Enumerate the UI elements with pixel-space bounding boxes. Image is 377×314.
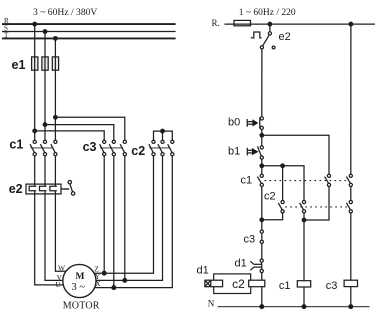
svg-text:c2: c2 [131,144,145,158]
svg-text:c3: c3 [244,234,256,246]
c1 aux contact right rung [346,174,352,186]
svg-text:d1: d1 [197,265,209,277]
wire c3 pole3 to Y node [124,156,126,281]
c2 star bus [154,131,173,140]
bus line T [2,37,176,39]
wire feeder A to c3 contact 3 [55,117,124,140]
node main rung bottom [260,218,264,222]
wire right rung top [350,24,352,174]
node X junction [112,286,116,290]
wire c2 contact1 to main rung [262,213,283,220]
fuse control [234,20,251,25]
svg-text:1 ~ 60Hz / 220: 1 ~ 60Hz / 220 [239,8,296,18]
c2 aux contact 1 [278,200,284,213]
motor M1 [63,264,96,297]
c1 aux contact holding [325,174,331,186]
wire phase2 down [44,32,46,141]
coil c1 [297,281,310,287]
contactor c2 pole 3 [168,140,174,156]
node star bus [161,129,165,133]
node N main rung [260,305,264,309]
node Z junction [102,271,106,275]
wire c1 to e2 phase1 [34,156,36,184]
wire e2 to motor U [35,194,64,285]
wire phase1 down [34,24,36,140]
node feeder A on phase3 [54,116,58,120]
svg-text:M: M [76,272,85,282]
node Y junction [123,279,127,283]
fuse e1 phase3 [52,57,58,70]
wire b1 to c1 row [261,159,263,174]
c2 aux contact 3 [346,200,352,213]
wire right rung row2 to coil [350,213,352,280]
wire c3 pole1 to Z node [103,156,105,273]
node tap T [54,37,58,41]
wire c1 coil to N [303,287,305,307]
bus line S [2,31,176,33]
svg-text:X: X [95,279,101,288]
wire c3 pole2 to X node [113,156,115,288]
svg-text:3 ~ 60Hz / 380V: 3 ~ 60Hz / 380V [33,7,97,18]
d1 timer body [214,274,251,294]
node feeder C on phase1 [33,129,37,133]
e2 trip lever [61,181,75,196]
wire c2 contact2 down [303,213,305,280]
svg-text:d1: d1 [235,258,247,270]
contactor c1 pole 1 [30,140,36,156]
svg-text:b0: b0 [228,117,240,129]
node N c3 coil [349,305,353,309]
wire c2 coil to N [261,287,263,307]
control supply line [224,23,375,25]
fuse e1 phase2 [42,57,48,70]
fuse e1 phase1 [32,57,38,70]
c2 linkage [149,147,170,149]
node tap R [33,22,37,26]
svg-text:c3: c3 [326,280,338,292]
e2 NC trip contact [251,24,275,49]
wire c3 aux to d1 contact [261,243,263,259]
wire c1 to e2 phase2 [44,156,46,184]
wire feeder B to c3 contact 2 [45,125,114,141]
neutral line N [218,306,370,308]
node N c1 coil [302,305,306,309]
svg-text:c3: c3 [83,140,97,154]
contactor c3 pole 2 [109,140,115,156]
svg-text:e2: e2 [9,182,23,196]
wire right rung between rows [350,187,352,201]
wire branch to c2 row contact1 [282,166,284,201]
node supply tap main rung [268,22,272,26]
contactor c3 pole 3 [120,140,126,156]
contactor c2 pole 2 [158,140,164,156]
svg-text:c2: c2 [264,191,276,203]
bus line R [2,23,176,25]
wire c2 pole2 to Y [96,156,163,281]
coil c2 [249,280,265,287]
svg-text:e2: e2 [279,31,291,43]
svg-text:c1: c1 [279,280,291,292]
contactor c3 pole 1 [100,140,106,156]
wire c1 row to c3 contact [261,187,263,231]
wire bypass to c2 row contact2 [262,166,304,201]
svg-text:W: W [58,264,66,273]
e2 heater 2 [40,186,47,190]
wire c1 to e2 phase3 [54,156,56,184]
svg-text:U: U [55,280,61,289]
c3 aux contact [260,230,263,243]
e2 heater 1 [29,186,36,190]
c3 linkage [100,147,123,149]
wire feeder C to c3 contact 1 [35,131,105,140]
wire phase3 down [54,38,56,140]
svg-text:c1: c1 [9,138,23,152]
c2 row linkage dashed [285,206,348,208]
node holding branch [260,134,264,138]
svg-text:c2: c2 [232,277,245,291]
contactor c2 pole 1 [149,140,155,156]
c1 aux contact main rung [257,174,263,186]
node bypass branch [260,164,264,168]
c1 row linkage dashed [265,180,349,182]
wire holding contact down [304,187,329,221]
c2 aux contact 2 [300,200,306,213]
wire e2 to b0 [261,49,263,117]
pushbutton b0 NC [247,117,263,130]
contactor c1 pole 3 [51,140,57,156]
d1 timer motor element [205,280,223,287]
d1 timed contact [250,259,263,273]
wire e2 to motor V [45,194,63,281]
node bypass mid [281,164,285,168]
c1 linkage [31,147,54,149]
node c1 coil top [302,218,306,222]
wire c2 pole3 to X [95,156,173,288]
wire c3 coil to N [350,287,352,307]
wire holding branch to c1 aux [262,135,329,174]
svg-text:e1: e1 [12,58,26,72]
contactor c1 pole 2 [40,140,46,156]
svg-text:c1: c1 [241,175,253,187]
svg-text:R.: R. [212,18,220,28]
wire d1 contact to c2 coil [261,273,263,281]
node feeder B on phase2 [43,123,47,127]
svg-text:b1: b1 [228,146,240,158]
wire e2 to motor W [55,194,66,271]
pushbutton b1 NO [247,146,263,159]
wire c2 pole1 to Z [94,156,153,273]
e2 heater 3 [50,186,57,190]
node supply tap right rung [349,22,353,26]
svg-text:N: N [208,298,215,308]
overload relay e2 box [26,184,61,194]
wire b0 to b1 [261,130,263,146]
coil c3 [344,280,357,286]
svg-text:3 ~: 3 ~ [72,282,86,293]
svg-text:MOTOR: MOTOR [63,300,100,311]
node tap S [43,30,47,34]
